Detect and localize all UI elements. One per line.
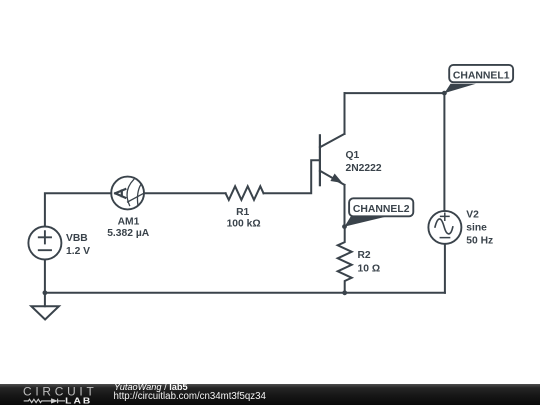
svg-text:1.2 V: 1.2 V [66, 246, 90, 257]
svg-text:CHANNEL2: CHANNEL2 [353, 204, 410, 215]
voltage source V2 [428, 211, 461, 244]
label VBB [66, 233, 90, 257]
wire (bottom rail) [45, 292, 445, 294]
resistor R1 [226, 186, 264, 200]
footer bar [0, 384, 540, 405]
node CHANNEL1 [442, 91, 447, 96]
ground [31, 293, 59, 320]
svg-text:2N2222: 2N2222 [346, 163, 382, 174]
svg-text:100 kΩ: 100 kΩ [227, 219, 261, 230]
label AM1 [107, 217, 150, 239]
svg-text:50 Hz: 50 Hz [466, 236, 493, 247]
node CHANNEL2 [342, 224, 347, 229]
transistor Q1 [320, 134, 345, 185]
voltage source VBB [28, 227, 61, 260]
label Q1 [346, 150, 382, 174]
wire (VBB top to ammeter) [45, 193, 111, 226]
svg-text:Q1: Q1 [346, 150, 360, 161]
wire (collector up) [344, 93, 346, 134]
svg-text:CHANNEL1: CHANNEL1 [453, 71, 510, 82]
svg-text:10 Ω: 10 Ω [358, 264, 381, 275]
svg-text:AM1: AM1 [118, 217, 140, 228]
ammeter AM1 [111, 177, 144, 210]
label R2 [358, 250, 381, 275]
wire (emitter down) [344, 185, 346, 227]
probe CHANNEL1 [444, 65, 513, 93]
svg-text:R2: R2 [358, 250, 371, 261]
svg-text:V2: V2 [466, 210, 479, 221]
wire (R1 to base) [264, 160, 319, 193]
probe CHANNEL2 [345, 198, 414, 226]
node (R2 bottom junction) [342, 290, 347, 295]
label R1 [227, 207, 261, 230]
node (VBB ground junction) [43, 290, 48, 295]
svg-text:LAB: LAB [65, 396, 92, 405]
wire (right rail upper) [443, 93, 445, 211]
footer credit text [114, 383, 188, 392]
svg-text:5.382 µA: 5.382 µA [107, 228, 150, 239]
wire (VBB bottom) [44, 260, 46, 293]
resistor R2 [338, 227, 352, 293]
svg-text:sine: sine [466, 223, 487, 234]
CircuitLab logo [0, 384, 110, 405]
label V2 [466, 210, 493, 247]
wire (ammeter to R1) [144, 192, 226, 194]
wire (right rail lower) [444, 244, 446, 293]
wire (top rail) [345, 92, 445, 94]
svg-text:R1: R1 [236, 207, 249, 218]
svg-text:VBB: VBB [66, 233, 88, 244]
